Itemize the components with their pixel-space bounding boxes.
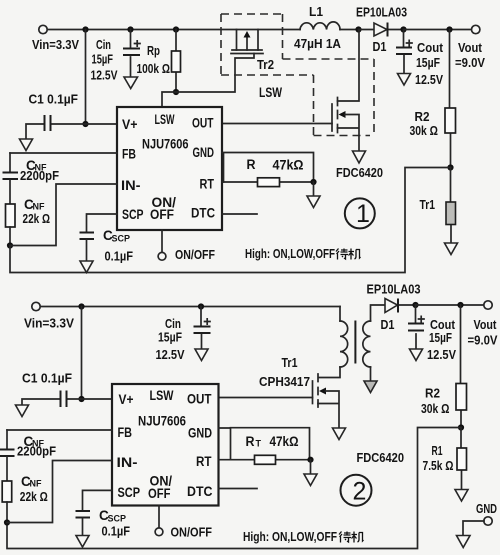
ground (RT circuit 2) xyxy=(304,460,317,486)
node L1 / D1 / NMOS drain xyxy=(355,26,361,32)
svg-text:SCP: SCP xyxy=(122,207,144,222)
node R2 rail (circuit 1) xyxy=(446,26,452,32)
wire DTC stub (circuit 1) xyxy=(222,213,257,215)
ground (R1) xyxy=(455,490,468,502)
node feedback (R2/R1 circuit 2) xyxy=(458,424,464,430)
resistor RNF 22k (circuit 1) xyxy=(6,197,51,246)
node Cin rail (circuit 2) xyxy=(198,303,204,309)
svg-text:NF: NF xyxy=(30,479,42,489)
capacitor Cout (circuit 1) xyxy=(396,30,444,88)
svg-text:=9.0V: =9.0V xyxy=(455,55,485,70)
capacitor C1 (circuit 1) xyxy=(26,92,117,140)
svg-text:22k Ω: 22k Ω xyxy=(20,489,48,504)
svg-text:12.5V: 12.5V xyxy=(427,347,456,362)
svg-text:Cin: Cin xyxy=(96,37,111,52)
svg-text:R1: R1 xyxy=(432,443,443,458)
ground (R 47k circuit 1) xyxy=(307,182,320,208)
svg-text:Tr1: Tr1 xyxy=(282,355,298,370)
svg-text:RT: RT xyxy=(200,177,215,192)
node CNF bottom (circuit 2) xyxy=(4,519,10,525)
wire IN- network (circuit 1) xyxy=(10,184,117,246)
svg-text:D1: D1 xyxy=(373,39,387,54)
svg-text:15µF: 15µF xyxy=(429,330,452,345)
capacitor Cin (circuit 1) xyxy=(91,30,141,83)
svg-text:LSW: LSW xyxy=(150,388,174,403)
svg-text:DTC: DTC xyxy=(191,206,215,221)
node Cin rail (circuit 1) xyxy=(127,26,133,32)
svg-text:SCP: SCP xyxy=(118,485,141,500)
svg-text:Rp: Rp xyxy=(147,43,160,58)
svg-text:NF: NF xyxy=(33,202,45,212)
inductor L1 47uH xyxy=(294,4,359,51)
resistor R 47k (circuit 1) with label box xyxy=(222,153,314,187)
transistor Tr2 (PMOS in FDC6420) xyxy=(231,30,274,73)
svg-text:0.1µF: 0.1µF xyxy=(102,524,131,539)
node Cout rail (circuit 2) xyxy=(412,302,418,308)
svg-text:15µF: 15µF xyxy=(158,330,182,345)
wire rail to Vout terminal xyxy=(404,29,472,31)
label circled 2 xyxy=(341,475,372,506)
svg-text:FB: FB xyxy=(118,425,133,440)
svg-text:RT: RT xyxy=(196,454,212,469)
svg-text:V+: V+ xyxy=(119,392,134,407)
transistor Tr1 CPH3417 xyxy=(219,355,340,428)
svg-text:12.5V: 12.5V xyxy=(156,347,185,362)
svg-text:High: ON,LOW,OFF: High: ON,LOW,OFF xyxy=(245,246,335,261)
ground (CPH3417 source) xyxy=(333,428,346,440)
ground (CSCP circuit 1) xyxy=(80,261,93,273)
node V+ / C1 (circuit 2) xyxy=(78,396,84,402)
svg-text:R2: R2 xyxy=(415,109,430,124)
svg-text:FB: FB xyxy=(122,147,136,162)
svg-text:NJU7606: NJU7606 xyxy=(138,414,186,429)
ground (Tr1 circuit 1) xyxy=(445,243,458,255)
resistor R1 7.5k xyxy=(423,428,467,490)
node Rp rail xyxy=(173,26,179,32)
svg-text:Cout: Cout xyxy=(417,40,444,55)
svg-text:100k Ω: 100k Ω xyxy=(137,61,171,76)
op-amp U2: IC NJU7606 (circuit 2) xyxy=(112,384,219,506)
ground (secondary circuit 2) xyxy=(364,381,377,393)
svg-text:OFF: OFF xyxy=(150,207,174,222)
svg-text:OFF: OFF xyxy=(148,486,171,501)
svg-text:R: R xyxy=(247,157,256,172)
resistor RNF 22k (circuit 2) xyxy=(2,474,48,523)
capacitor CNF 2200pF (circuit 2) xyxy=(0,430,112,481)
node V+ / C1 xyxy=(82,121,88,127)
terminal GND xyxy=(463,501,497,536)
svg-text:NJU7606: NJU7606 xyxy=(142,136,189,151)
svg-text:Vout: Vout xyxy=(474,317,498,332)
wire IN- network (circuit 2) xyxy=(7,461,112,523)
wire V+ vertical (circuit 2) xyxy=(81,307,83,400)
terminal ON/OFF (circuit 1) xyxy=(158,230,215,262)
svg-text:15µF: 15µF xyxy=(92,52,114,67)
svg-text:R2: R2 xyxy=(425,386,440,401)
svg-text:GND: GND xyxy=(476,501,497,516)
svg-text:C1 0.1µF: C1 0.1µF xyxy=(22,371,72,386)
svg-text:0.1µF: 0.1µF xyxy=(105,249,134,264)
svg-text:47kΩ: 47kΩ xyxy=(270,434,299,449)
transistor LSW NMOS (FDC6420 circuit 1) xyxy=(222,30,359,152)
svg-text:IN-: IN- xyxy=(121,178,141,193)
svg-text:GND: GND xyxy=(193,145,215,160)
svg-text:7.5k Ω: 7.5k Ω xyxy=(423,458,454,473)
svg-text:12.5V: 12.5V xyxy=(91,68,118,83)
ground (Cout circuit 1) xyxy=(398,74,411,86)
op-amp U1: IC NJU7606 (circuit 1) xyxy=(117,107,222,230)
svg-text:30k Ω: 30k Ω xyxy=(421,401,450,416)
svg-text:R: R xyxy=(246,434,255,449)
transformer Tr1 (circuit 2) xyxy=(319,305,386,381)
note High/Low (circuit 2) xyxy=(243,529,364,544)
node V+ branch (circuit 2) xyxy=(78,303,84,309)
capacitor CSCP 0.1uF (circuit 2) xyxy=(76,490,131,538)
svg-text:FDC6420: FDC6420 xyxy=(357,450,405,465)
svg-text:T: T xyxy=(256,439,262,449)
wire V+ vertical xyxy=(85,30,87,125)
wire feedback / bottom rail (circuit 2) xyxy=(7,428,461,549)
svg-text:LSW: LSW xyxy=(155,112,175,127)
diode D1 EP10LA03 (circuit 2) xyxy=(367,282,421,333)
diode D1 EP10LA03 (circuit 1) xyxy=(356,5,407,55)
node RT / R ground (circuit 1) xyxy=(310,179,316,185)
ground (C1 circuit 1) xyxy=(20,139,33,151)
svg-text:SCP: SCP xyxy=(112,234,131,244)
wire LSW node to IC top pin xyxy=(162,54,254,108)
svg-text:Vin=3.3V: Vin=3.3V xyxy=(24,316,74,331)
svg-text:=9.0V: =9.0V xyxy=(468,333,498,348)
svg-text:SCP: SCP xyxy=(108,514,127,524)
node R2 rail (circuit 2) xyxy=(457,302,463,308)
svg-text:D1: D1 xyxy=(381,317,395,332)
ground (GND terminal) xyxy=(457,536,471,548)
node LSW (Rp bottom) xyxy=(173,89,179,95)
svg-text:C1 0.1µF: C1 0.1µF xyxy=(29,92,79,107)
svg-text:EP10LA03: EP10LA03 xyxy=(367,282,421,297)
capacitor C1 (circuit 2) xyxy=(22,371,112,408)
wire top rail circuit 1 xyxy=(48,29,301,31)
wire bottom rail / feedback (circuit 1) xyxy=(10,168,451,273)
svg-text:OUT: OUT xyxy=(187,392,212,407)
ground (Cout circuit 2) xyxy=(410,349,423,361)
thermistor Tr1 (circuit 1) xyxy=(420,168,456,244)
svg-text:Vout: Vout xyxy=(458,40,483,55)
terminal Vout (circuit 1) xyxy=(455,25,485,70)
svg-text:DTC: DTC xyxy=(187,484,213,499)
terminal Vout (circuit 2) xyxy=(468,301,498,348)
svg-text:OUT: OUT xyxy=(192,116,214,131)
note High/Low (circuit 1) xyxy=(245,246,361,261)
resistor RT 47k (circuit 2) with label box xyxy=(219,428,311,465)
svg-text:Vin=3.3V: Vin=3.3V xyxy=(32,37,79,52)
resistor Rp 100k xyxy=(137,30,181,93)
wire DTC stub (circuit 2) xyxy=(219,488,258,490)
svg-text:EP10LA03: EP10LA03 xyxy=(356,5,407,20)
terminal ON/OFF (circuit 2) xyxy=(155,506,212,540)
node RT ground (circuit 2) xyxy=(307,457,313,463)
svg-text:ON/OFF: ON/OFF xyxy=(171,525,213,540)
node Cout rail (circuit 1) xyxy=(400,26,406,32)
ground (Cin circuit 1) xyxy=(124,77,138,89)
dashed outline FDC6420 / L1 (circuit 1) xyxy=(221,14,374,136)
label circled 1 xyxy=(345,198,375,228)
terminal Vin (circuit 2) xyxy=(24,302,74,330)
svg-text:V+: V+ xyxy=(122,117,138,132)
node Vin rail / V+ branch xyxy=(82,26,88,32)
svg-text:L1: L1 xyxy=(309,4,323,19)
svg-text:2200pF: 2200pF xyxy=(20,168,59,183)
resistor R2 30k (circuit 2) xyxy=(421,305,467,428)
svg-text:15µF: 15µF xyxy=(416,55,440,70)
capacitor CSCP 0.1uF (circuit 1) xyxy=(80,214,134,264)
capacitor CNF 2200pF (circuit 1) xyxy=(3,153,118,204)
svg-text:Tr1: Tr1 xyxy=(420,197,436,212)
resistor R2 30k (circuit 1) xyxy=(410,30,456,168)
capacitor Cout (circuit 2) xyxy=(408,305,456,362)
wire top rail circuit 2 xyxy=(41,306,341,308)
svg-text:2: 2 xyxy=(353,478,367,506)
svg-text:47µH 1A: 47µH 1A xyxy=(294,36,342,51)
svg-text:Tr2: Tr2 xyxy=(257,57,274,72)
svg-text:12.5V: 12.5V xyxy=(415,72,443,87)
ground (Cin circuit 2) xyxy=(195,349,208,361)
node CNF bottom (circuit 1) xyxy=(7,242,13,248)
svg-text:1: 1 xyxy=(356,200,370,228)
svg-text:CPH3417: CPH3417 xyxy=(259,374,310,389)
svg-text:GND: GND xyxy=(188,426,212,441)
svg-text:FDC6420: FDC6420 xyxy=(336,165,383,180)
ground (NMOS source circuit 1) xyxy=(353,151,366,163)
svg-text:22k Ω: 22k Ω xyxy=(23,211,51,226)
ground (CSCP circuit 2) xyxy=(76,536,89,548)
svg-text:High: ON,LOW,OFF: High: ON,LOW,OFF xyxy=(243,529,337,544)
ground (C1 circuit 2) xyxy=(16,405,29,417)
svg-text:30k Ω: 30k Ω xyxy=(410,123,439,138)
svg-text:2200pF: 2200pF xyxy=(17,444,56,459)
svg-text:ON/OFF: ON/OFF xyxy=(175,247,215,262)
svg-text:IN-: IN- xyxy=(117,455,138,470)
capacitor Cin (circuit 2) xyxy=(156,307,211,363)
svg-text:LSW: LSW xyxy=(259,85,282,100)
svg-text:47kΩ: 47kΩ xyxy=(273,158,304,173)
node feedback (R2/Tr1 circuit 1) xyxy=(447,164,453,170)
terminal Vin (circuit 1) xyxy=(32,25,79,52)
wire rail to Vout terminal (circuit 2) xyxy=(416,304,485,306)
